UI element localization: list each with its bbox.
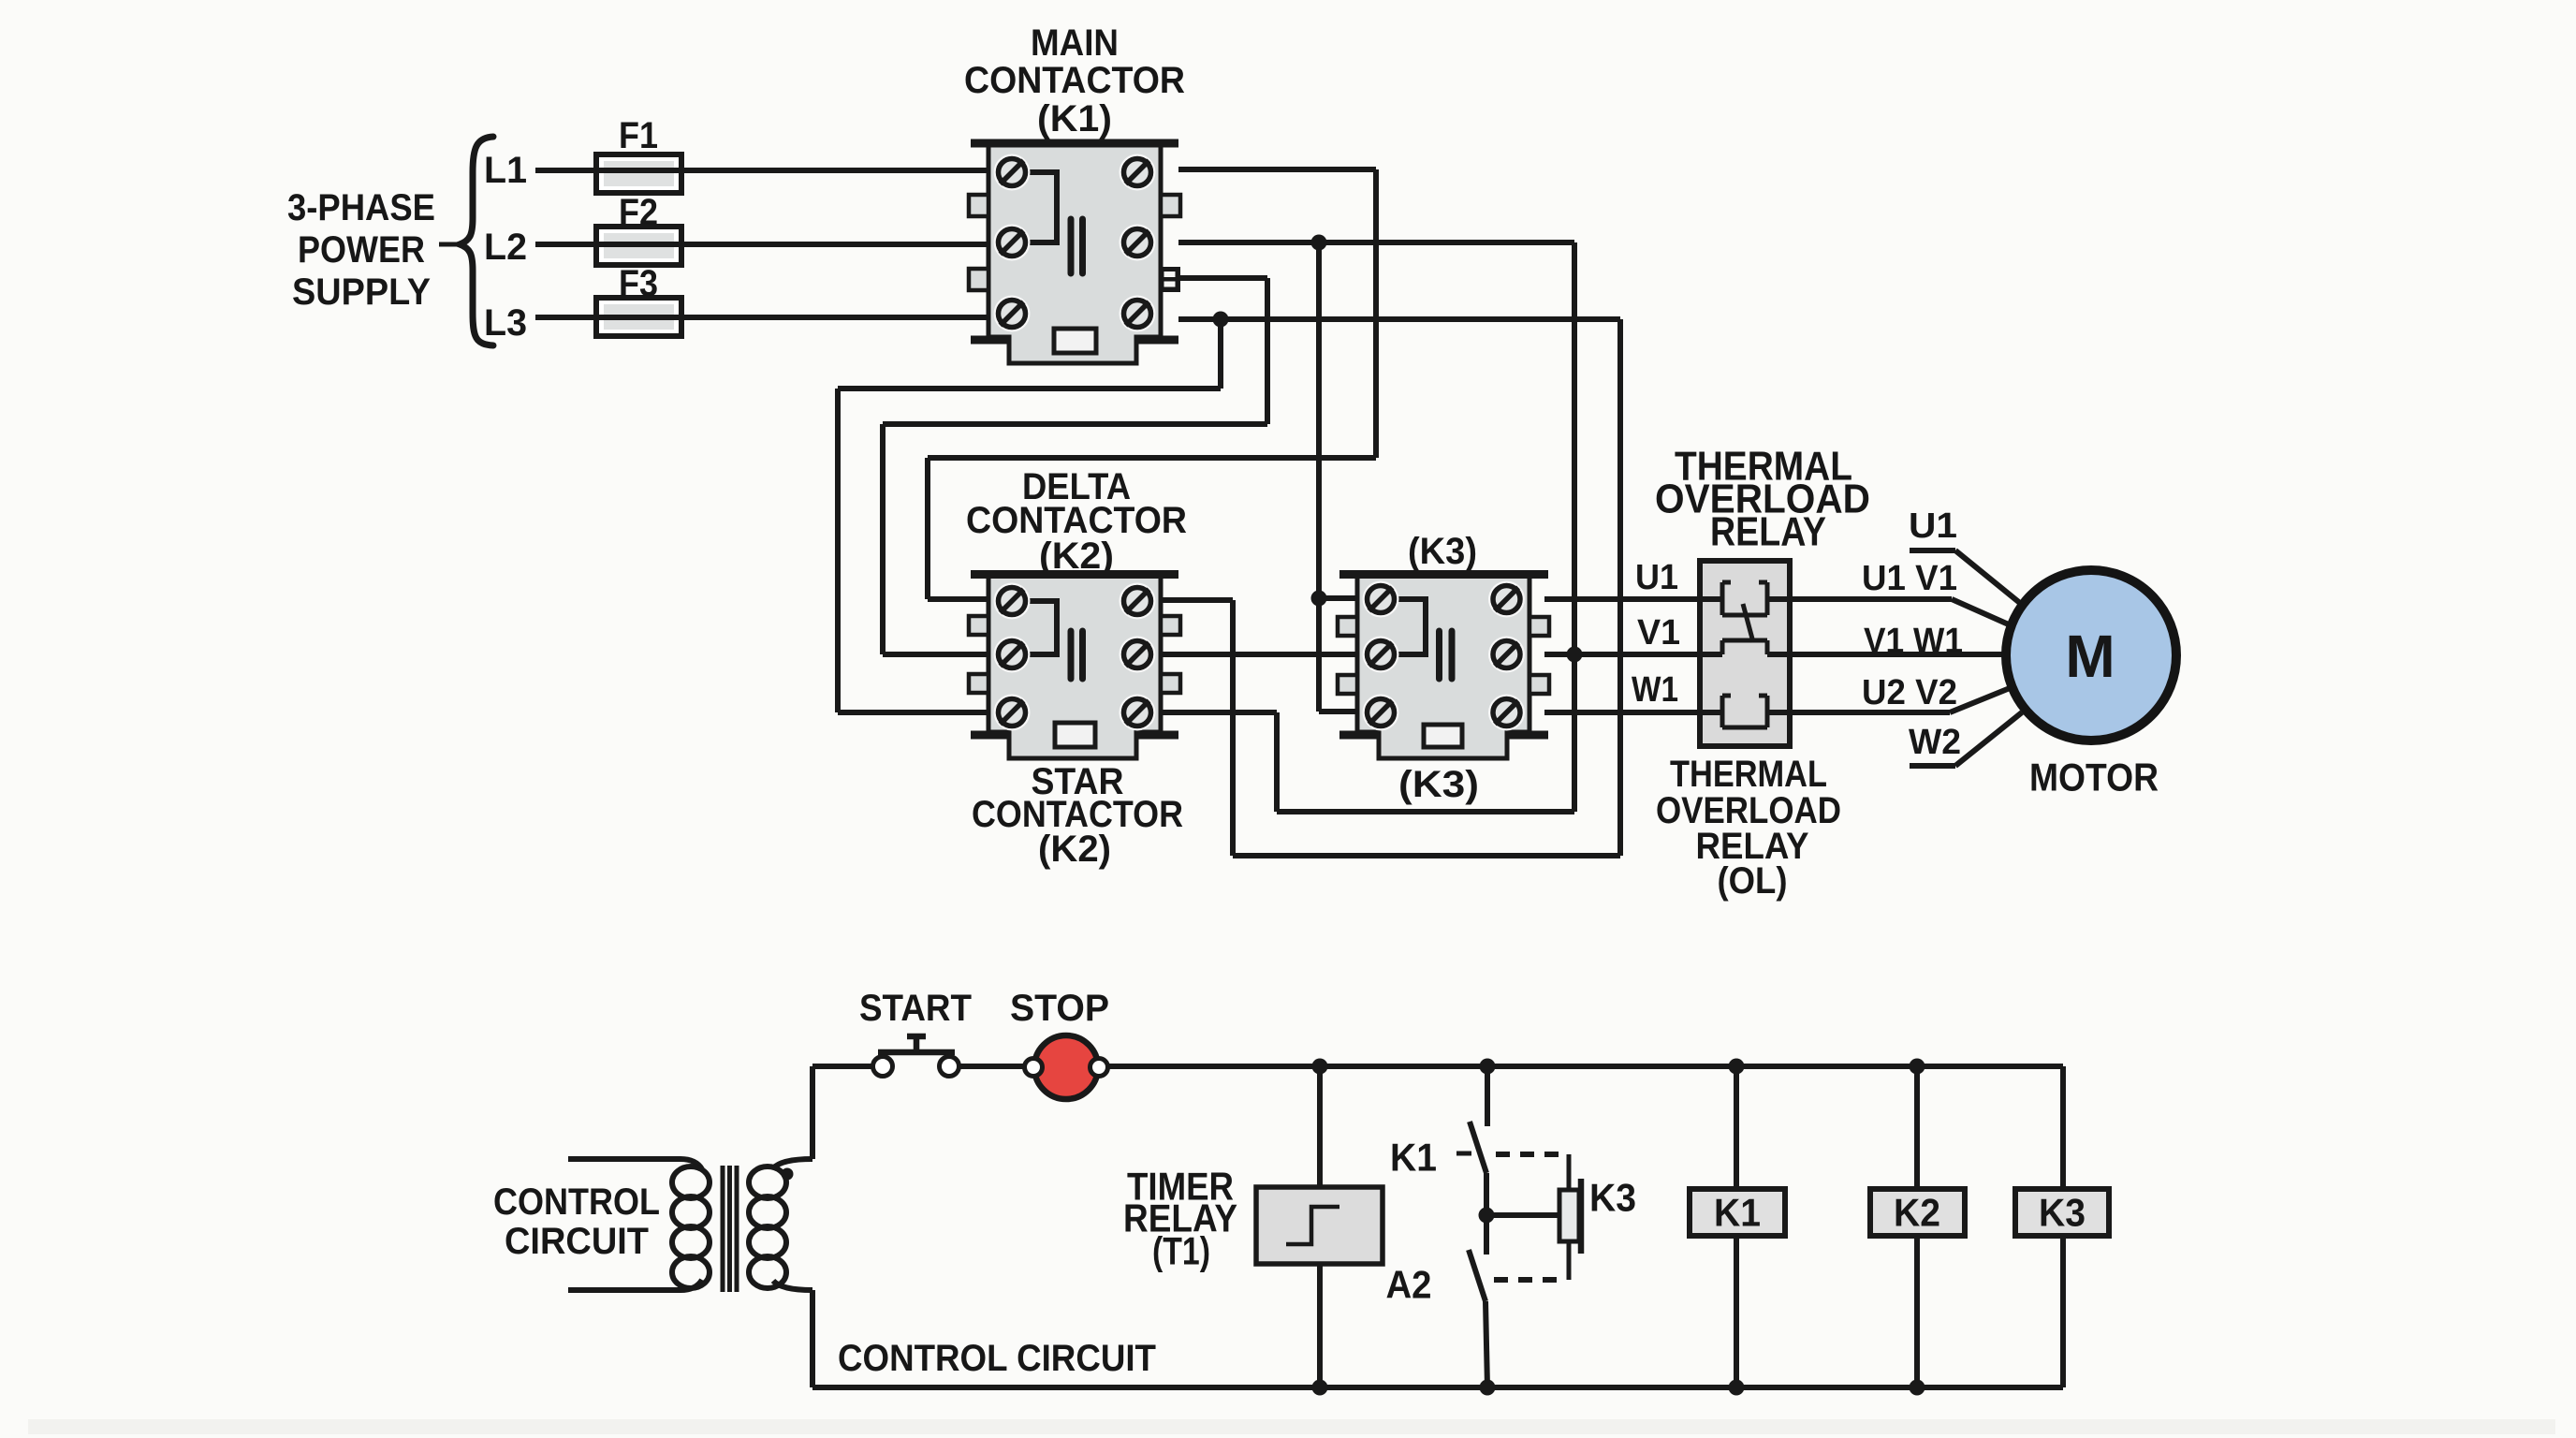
wire into K3 top-left screw xyxy=(1319,595,1359,601)
wire K2 top-right output xyxy=(1163,597,1233,603)
junction at (1409,259) xyxy=(1311,235,1327,251)
wire vertical x991 down to K2 top-left xyxy=(925,458,930,599)
contactor K1 terminal screw 2T1 xyxy=(1120,154,1156,191)
wire vertical x1470 down xyxy=(1373,169,1379,458)
contactor K2 auxiliary block xyxy=(1055,723,1095,747)
wire K3 coil branch upper xyxy=(2060,1066,2066,1189)
wire into K3 bottom-left screw xyxy=(1319,709,1359,714)
thermal overload relay OL body xyxy=(1700,561,1790,746)
svg-text:START: START xyxy=(859,988,972,1029)
wire U1V1 from OL to motor xyxy=(1790,599,2011,625)
junction top rail at K1 contact branch xyxy=(1480,1059,1496,1075)
junction bottom rail at timer branch xyxy=(1312,1380,1328,1396)
transformer T secondary winding xyxy=(749,1159,812,1290)
contactor K2 side tab right lower xyxy=(1161,674,1180,693)
wire K1 mid-right output horizontal y259 xyxy=(1178,240,1574,245)
contactor K1 terminal screw 3L2 xyxy=(994,225,1031,261)
svg-text:(K1): (K1) xyxy=(1037,98,1112,139)
wire vertical x1364 up to K2 bottom-right xyxy=(1274,712,1280,812)
svg-text:M: M xyxy=(2065,623,2115,690)
contactor K3 side tab right lower xyxy=(1529,675,1549,694)
svg-text:MOTOR: MOTOR xyxy=(2029,756,2159,800)
wire V1 from K3 to overload relay xyxy=(1544,652,1700,657)
transformer T primary lead top xyxy=(568,1156,681,1162)
wire into K2 mid-left screw xyxy=(883,652,990,657)
contactor K1 terminal screw 6T3 xyxy=(1120,296,1156,332)
label THERMAL OVERLOAD RELAY (OL) (bottom) xyxy=(1656,754,1841,902)
wire secondary top lead up to control rail xyxy=(810,1066,815,1159)
label THERMAL OVERLOAD RELAY (top) xyxy=(1655,444,1870,555)
wire timer branch lower xyxy=(1317,1264,1323,1387)
contactor K2 terminal screw 1 xyxy=(994,583,1031,620)
wire K3 coil branch lower xyxy=(2060,1236,2066,1387)
OL heater element on U1 xyxy=(1700,582,1790,615)
contactor K3 terminal screw 3 xyxy=(1363,637,1399,673)
svg-text:K3: K3 xyxy=(2039,1191,2086,1235)
wire K1 coil branch lower xyxy=(1734,1236,1739,1387)
svg-text:F1: F1 xyxy=(619,115,658,156)
contactor K3 terminal screw 4 xyxy=(1488,637,1525,673)
wire vertical x1317 down xyxy=(1230,600,1236,856)
OL trip linkage diagonal xyxy=(1743,604,1753,642)
contactor K2 terminal screw 6 xyxy=(1120,695,1156,731)
wire vertical x1682 from y259 to y867 xyxy=(1572,242,1577,812)
wire L3 to fuse F3 and contactor K1 xyxy=(535,315,987,320)
junction bottom rail at A2 branch xyxy=(1480,1380,1496,1396)
faint scan band at bottom edge xyxy=(28,1419,2555,1434)
junction top rail at K2 coil branch xyxy=(1910,1059,1925,1075)
wire into K2 top-left screw xyxy=(928,596,990,602)
wire vertical x1354 down xyxy=(1265,278,1270,424)
svg-text:SUPPLY: SUPPLY xyxy=(292,271,431,313)
wire W1 from K3 to overload relay xyxy=(1544,710,1700,715)
label TIMER RELAY (T1) xyxy=(1123,1165,1237,1273)
contactor K2 contact symbol xyxy=(1071,631,1083,679)
wire from K1/A2 junction to K3 aux coil xyxy=(1486,1212,1559,1218)
transformer T core xyxy=(723,1166,737,1292)
contactor K3 side tab right upper xyxy=(1529,617,1549,636)
svg-text:K1: K1 xyxy=(1714,1191,1761,1235)
junction top rail at K1 coil branch xyxy=(1729,1059,1745,1075)
svg-text:V1 W1: V1 W1 xyxy=(1864,622,1963,661)
contactor K1 body xyxy=(971,143,1178,363)
contactor K2 terminal screw 5 xyxy=(994,695,1031,731)
contactor K1 side tab left lower xyxy=(969,269,988,290)
svg-text:(T1): (T1) xyxy=(1152,1229,1210,1273)
label 3-PHASE POWER SUPPLY xyxy=(287,187,435,313)
svg-text:L1: L1 xyxy=(484,150,527,191)
contactor K3 side tab left lower xyxy=(1338,675,1357,694)
svg-text:(K2): (K2) xyxy=(1038,829,1111,870)
contact A2 xyxy=(1469,1250,1487,1387)
junction at (1682,699) on V1 line xyxy=(1567,647,1583,663)
svg-text:F2: F2 xyxy=(619,192,658,233)
fuse F3 xyxy=(596,298,681,336)
wire K2 coil branch lower xyxy=(1914,1236,1920,1387)
svg-text:STOP: STOP xyxy=(1010,988,1109,1029)
auxiliary element K3 xyxy=(1559,1154,1581,1280)
timer relay T1 xyxy=(1256,1187,1383,1264)
wire vertical x895 down to K2 bottom-left xyxy=(835,389,841,712)
wire timer branch upper xyxy=(1317,1066,1323,1189)
contactor K2 side tab left upper xyxy=(969,616,988,635)
contactor K2 coil link bracket xyxy=(1026,601,1057,654)
svg-text:K2: K2 xyxy=(1894,1191,1940,1235)
wire vertical x1304 down xyxy=(1218,319,1223,389)
junction at (1409,639) xyxy=(1311,591,1327,607)
wire horizontal y867 xyxy=(1277,809,1574,814)
wire horizontal y453 to left xyxy=(883,421,1267,427)
wire K2 mid-right to K3 mid-left xyxy=(1163,652,1359,657)
contactor K3 side tab left upper xyxy=(1338,617,1357,636)
dashed link K1 to K3 aux xyxy=(1496,1152,1561,1157)
motor terminal stub W2 xyxy=(1910,712,2022,766)
brace for 3-phase supply xyxy=(439,137,493,345)
svg-text:CONTROL: CONTROL xyxy=(493,1181,660,1223)
contactor K2 terminal screw 4 xyxy=(1120,637,1156,673)
wire horizontal y914 xyxy=(1233,853,1620,858)
contactor K3 terminal screw 1 xyxy=(1363,581,1399,618)
OL bridge element on V1 xyxy=(1700,640,1790,654)
svg-text:CONTACTOR: CONTACTOR xyxy=(964,60,1185,101)
fuse F1 xyxy=(596,154,681,193)
wire control rail to START xyxy=(812,1064,874,1069)
svg-text:POWER: POWER xyxy=(298,229,425,271)
pushbutton STOP xyxy=(1025,1035,1108,1099)
dashed link A2 to K3 aux xyxy=(1494,1277,1561,1283)
wire V1W1 from OL to motor xyxy=(1790,652,2007,657)
wire control bottom rail xyxy=(812,1385,2063,1390)
svg-text:F3: F3 xyxy=(619,263,658,304)
contactor K1 side tab right lower (aux terminal 13NO) xyxy=(1160,267,1180,292)
contactor K2 side tab right upper xyxy=(1161,616,1180,635)
svg-text:K3: K3 xyxy=(1589,1176,1636,1220)
svg-text:L2: L2 xyxy=(484,227,527,268)
junction bottom rail at K1 coil branch xyxy=(1729,1380,1745,1396)
svg-text:3-PHASE: 3-PHASE xyxy=(287,187,435,228)
wire U1 from K3 to overload relay xyxy=(1544,596,1700,602)
contactor K2 terminal screw 2 xyxy=(1120,583,1156,620)
contactor K1 terminal screw 1L1 xyxy=(994,154,1031,191)
motor terminal stub U1 xyxy=(1910,550,2026,608)
wire secondary bottom lead down to bottom rail xyxy=(810,1290,815,1387)
svg-text:V1: V1 xyxy=(1637,613,1680,653)
svg-text:CIRCUIT: CIRCUIT xyxy=(505,1221,649,1262)
contactor K3 body xyxy=(1339,575,1548,759)
contactor K1 side tab right upper xyxy=(1161,195,1180,216)
svg-text:K1: K1 xyxy=(1390,1136,1437,1180)
svg-text:CONTROL CIRCUIT: CONTROL CIRCUIT xyxy=(838,1338,1156,1379)
contactor K1 terminal screw 4T2 xyxy=(1120,225,1156,261)
junction top rail at timer branch xyxy=(1312,1059,1328,1075)
label STAR CONTACTOR (K2) xyxy=(972,761,1183,870)
svg-text:U1: U1 xyxy=(1635,558,1678,597)
wire into K2 bottom-right screw xyxy=(1163,710,1277,715)
contactor K3 contact symbol xyxy=(1440,631,1453,679)
contactor K2 side tab left lower xyxy=(969,674,988,693)
contactor K3 auxiliary block xyxy=(1424,725,1462,747)
svg-text:W2: W2 xyxy=(1909,723,1961,762)
motor M xyxy=(2006,570,2176,741)
svg-text:U1: U1 xyxy=(1909,506,1957,546)
junction bottom rail at K2 coil branch xyxy=(1910,1380,1925,1396)
svg-text:W1: W1 xyxy=(1632,670,1678,710)
coil K2 xyxy=(1870,1189,1965,1236)
svg-text:(OL): (OL) xyxy=(1718,860,1788,902)
wire control top rail xyxy=(1108,1064,2063,1069)
wire vertical x1731 up to y341 line xyxy=(1617,319,1623,856)
wire horizontal y415 to left xyxy=(838,386,1221,391)
wire K1 top-right output horizontal xyxy=(1178,167,1376,172)
contactor K2 body xyxy=(971,575,1178,759)
wire L1 to fuse F1 and contactor K1 xyxy=(535,168,987,173)
label DELTA CONTACTOR (K2) xyxy=(966,466,1187,577)
contactor K3 coil link bracket xyxy=(1395,599,1426,654)
contactor K1 coil link bracket xyxy=(1026,172,1057,242)
svg-text:MAIN: MAIN xyxy=(1031,22,1119,64)
OL heater element on W1 xyxy=(1700,696,1790,727)
contact K1 NO xyxy=(1456,1066,1487,1255)
wire START to STOP xyxy=(959,1064,1033,1069)
contactor K3 terminal screw 2 xyxy=(1488,581,1525,618)
wire K1 coil branch upper xyxy=(1734,1066,1739,1189)
svg-text:L3: L3 xyxy=(484,302,527,344)
contactor K3 terminal screw 5 xyxy=(1363,695,1399,731)
contactor K1 terminal screw 5L3 xyxy=(994,296,1031,332)
coil K1 xyxy=(1690,1189,1785,1236)
wire vertical x1409 down to K3 left side xyxy=(1316,242,1322,712)
contactor K3 terminal screw 6 xyxy=(1488,695,1525,731)
svg-text:(K3): (K3) xyxy=(1398,764,1479,805)
junction at (1304,341) xyxy=(1213,312,1229,328)
svg-text:A2: A2 xyxy=(1386,1263,1432,1307)
wire U2V2 from OL to motor xyxy=(1790,686,2014,712)
wire into K2 bottom-left screw xyxy=(838,710,990,715)
svg-text:RELAY: RELAY xyxy=(1710,509,1826,555)
svg-text:(K3): (K3) xyxy=(1408,531,1477,572)
wire K1 bottom-right output horizontal y341 xyxy=(1178,316,1620,322)
contactor K1 side tab left upper xyxy=(969,195,988,216)
svg-text:U2 V2: U2 V2 xyxy=(1862,673,1957,712)
label MAIN CONTACTOR (K1) xyxy=(964,22,1185,139)
pushbutton START xyxy=(873,1036,959,1077)
wire L2 to fuse F2 and contactor K1 xyxy=(535,242,987,247)
wire horizontal y489 to left xyxy=(928,455,1376,461)
svg-text:THERMAL: THERMAL xyxy=(1670,754,1827,795)
wire K1 aux tab output y297 xyxy=(1180,275,1267,281)
transformer T primary lead bottom xyxy=(568,1287,681,1293)
wire vertical x943 down to K2 mid-left xyxy=(880,424,885,654)
svg-text:U1 V1: U1 V1 xyxy=(1862,559,1957,598)
fuse F2 xyxy=(596,227,681,265)
coil K3 xyxy=(2015,1189,2109,1236)
transformer T primary winding xyxy=(672,1159,710,1290)
transformer T polarity dot xyxy=(782,1168,794,1181)
contactor K1 auxiliary block xyxy=(1054,329,1096,353)
wire K2 coil branch upper xyxy=(1914,1066,1920,1189)
label CONTROL CIRCUIT (left) xyxy=(493,1181,660,1262)
junction at K1/A2 contact midpoint xyxy=(1479,1208,1495,1224)
contactor K2 terminal screw 3 xyxy=(994,637,1031,673)
contactor K1 contact symbol xyxy=(1071,219,1083,273)
